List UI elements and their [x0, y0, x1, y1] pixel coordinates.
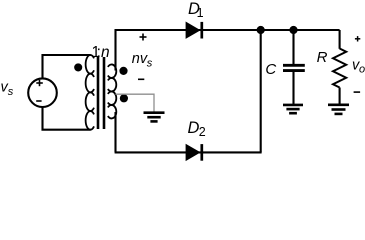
diode D2	[186, 144, 200, 160]
transformer core	[98, 57, 104, 129]
plus sign nvs	[140, 34, 147, 41]
vs minus sign	[36, 100, 41, 102]
resistor R zigzag	[333, 49, 346, 88]
resistor R stem top	[339, 30, 341, 49]
svg-text:1: 1	[197, 6, 204, 20]
voltage source vs	[28, 78, 57, 107]
minus sign vo	[354, 91, 361, 93]
minus sign nvs	[138, 78, 144, 80]
capacitor C stem bottom	[292, 72, 294, 104]
ground capacitor	[283, 105, 303, 113]
ground center tap	[144, 113, 165, 122]
top rail wire	[115, 29, 340, 31]
svg-text:nv: nv	[132, 51, 148, 67]
capacitor C stem top	[292, 30, 294, 64]
wire secondary bottom lead	[114, 112, 116, 152]
svg-text:s: s	[8, 86, 14, 98]
svg-text:s: s	[147, 58, 153, 70]
bottom rail wire	[115, 151, 262, 153]
wire source loop bottom	[43, 107, 91, 130]
plus sign vo	[355, 36, 360, 41]
junction dot B	[289, 26, 297, 34]
svg-text:o: o	[359, 64, 365, 76]
vs plus sign	[36, 80, 43, 86]
center tap dot	[120, 94, 128, 102]
svg-text:C: C	[265, 61, 276, 78]
svg-text:R: R	[317, 49, 328, 66]
wire source loop top	[43, 55, 91, 79]
transformer secondary winding	[108, 64, 116, 118]
svg-text:n: n	[101, 44, 110, 61]
resistor R stem bottom	[339, 88, 341, 104]
capacitor C plates	[283, 64, 305, 67]
wire rectifier output vertical	[260, 30, 262, 152]
transformer primary winding	[86, 55, 94, 130]
svg-text:2: 2	[199, 125, 206, 139]
diode D1	[186, 22, 200, 38]
polarity dot primary	[74, 63, 82, 71]
ground resistor	[328, 105, 349, 114]
junction dot A	[257, 26, 265, 34]
wire secondary top lead	[114, 29, 116, 70]
svg-text:D: D	[188, 119, 200, 137]
polarity dot secondary top	[119, 67, 127, 75]
center tap wire (gray)	[116, 94, 155, 111]
